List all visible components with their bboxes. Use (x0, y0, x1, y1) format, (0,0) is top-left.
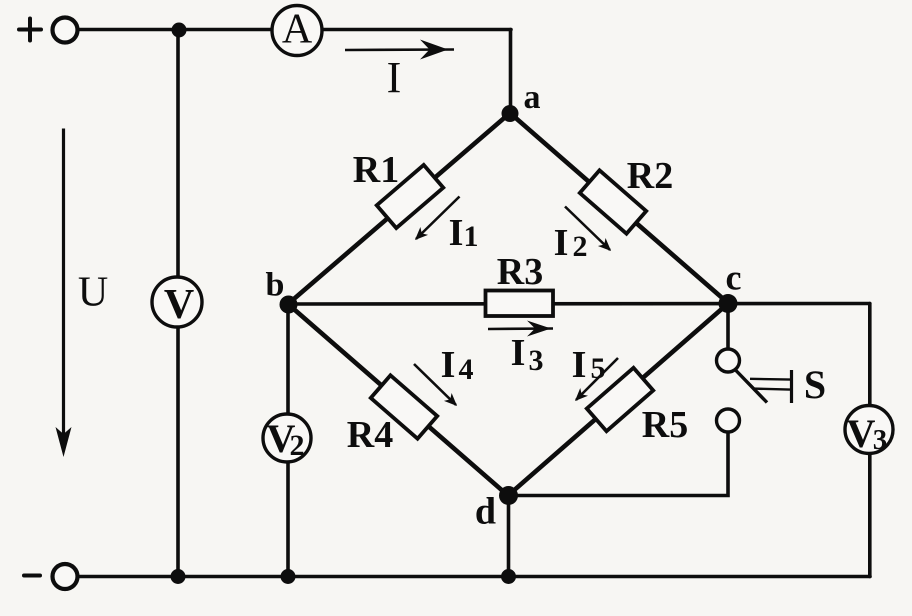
svg-text:R3: R3 (497, 251, 543, 293)
svg-text:c: c (726, 258, 742, 298)
svg-text:V: V (847, 411, 876, 456)
svg-text:S: S (804, 362, 826, 407)
svg-text:I: I (572, 344, 587, 386)
svg-text:2: 2 (573, 230, 588, 263)
svg-text:b: b (266, 267, 285, 304)
svg-text:I: I (554, 222, 569, 264)
svg-text:3: 3 (873, 424, 888, 456)
svg-text:R2: R2 (627, 155, 673, 197)
svg-text:R4: R4 (347, 414, 393, 456)
svg-text:I: I (441, 344, 456, 386)
svg-text:a: a (524, 79, 541, 116)
svg-text:R5: R5 (642, 404, 688, 446)
svg-text:5: 5 (591, 352, 606, 385)
svg-text:d: d (475, 491, 496, 533)
svg-text:2: 2 (290, 429, 305, 462)
svg-text:R1: R1 (353, 149, 399, 191)
svg-text:U: U (78, 270, 108, 316)
svg-text:1: 1 (464, 220, 479, 253)
svg-text:I: I (449, 212, 464, 254)
svg-text:4: 4 (459, 353, 474, 386)
svg-text:I: I (511, 332, 526, 374)
svg-text:I: I (387, 53, 402, 102)
svg-text:V: V (164, 282, 194, 328)
svg-text:3: 3 (529, 344, 544, 377)
svg-text:A: A (282, 7, 313, 53)
